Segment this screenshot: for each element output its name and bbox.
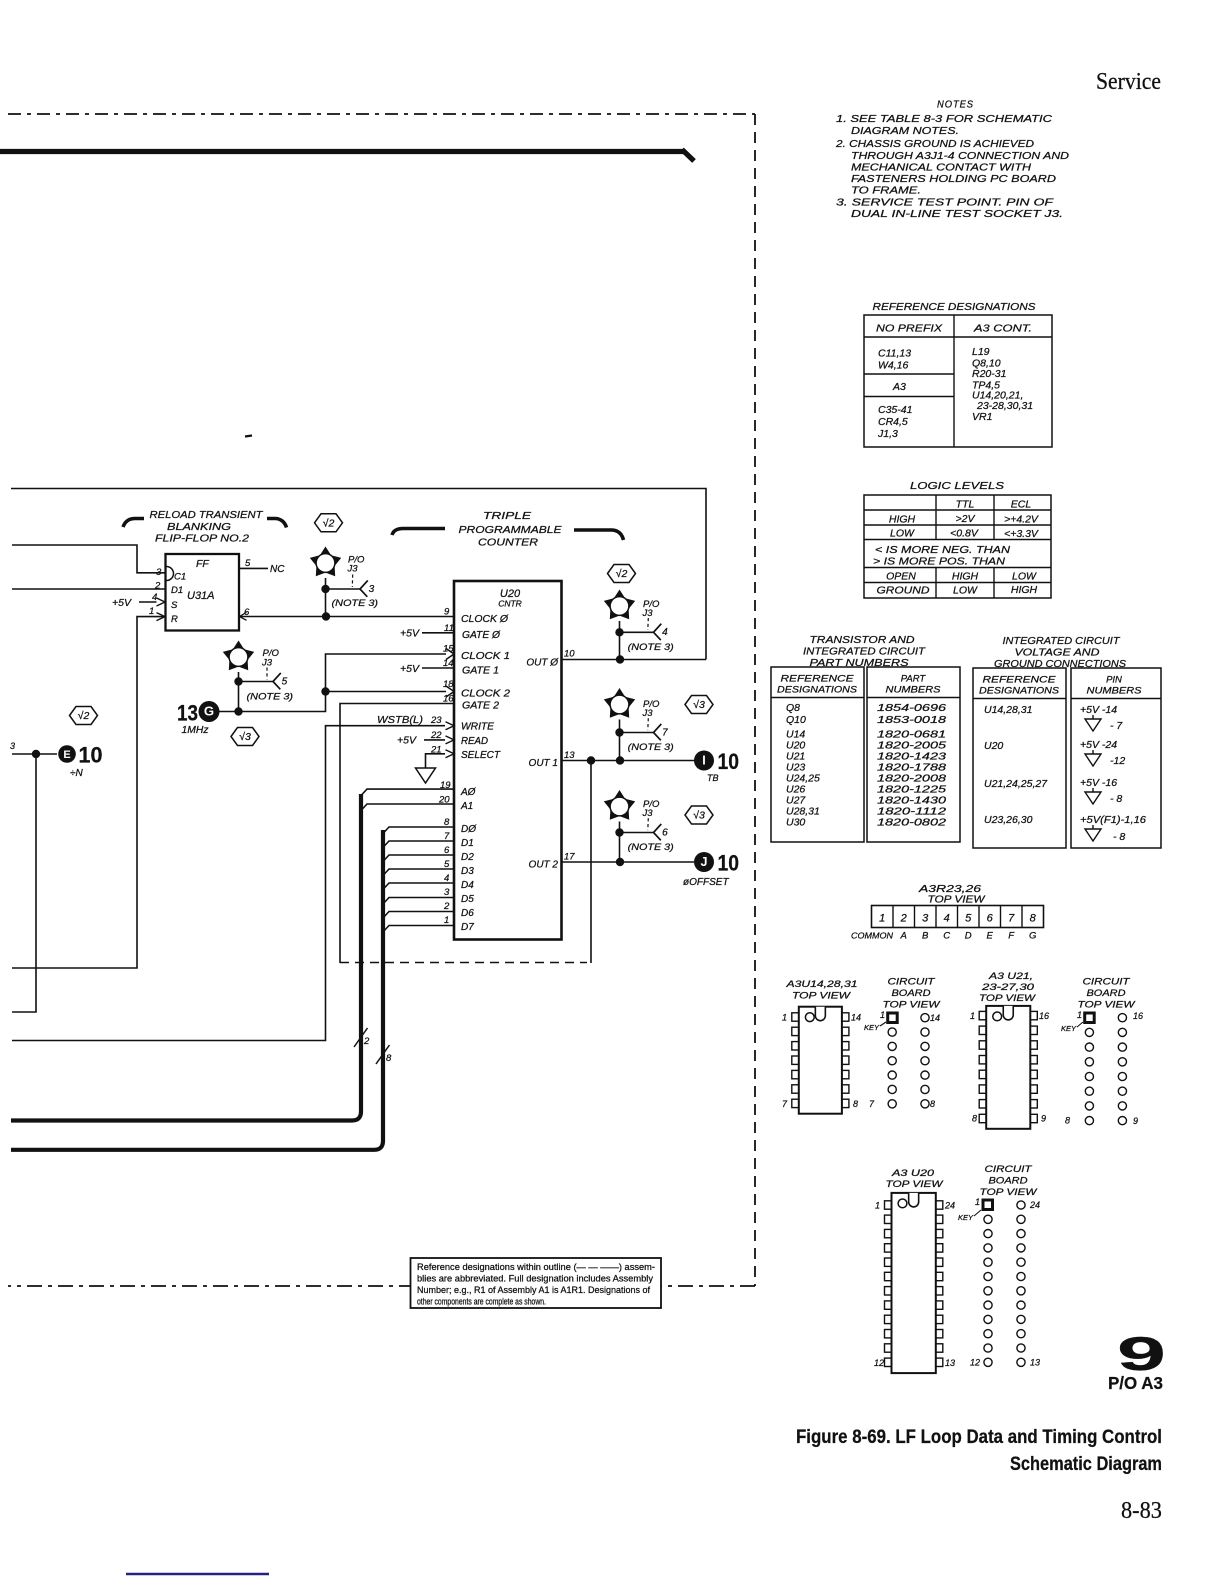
- svg-text:S: S: [171, 600, 178, 611]
- svg-text:1: 1: [879, 913, 885, 925]
- test point star P/O J3 pin 6: [604, 790, 674, 862]
- svg-text:TTL: TTL: [956, 499, 975, 511]
- svg-text:24: 24: [1029, 1200, 1040, 1210]
- svg-text:A3 CONT.: A3 CONT.: [973, 323, 1032, 335]
- svg-text:MECHANICAL CONTACT WITH: MECHANICAL CONTACT WITH: [851, 162, 1031, 174]
- svg-text:TRIPLE: TRIPLE: [483, 510, 532, 522]
- svg-text:VR1: VR1: [972, 411, 992, 423]
- svg-text:HIGH: HIGH: [1011, 584, 1038, 596]
- wire D1 pin: [383, 841, 454, 848]
- transistor and IC part numbers table: [771, 634, 960, 842]
- svg-text:10: 10: [564, 649, 575, 660]
- svg-text:TO FRAME.: TO FRAME.: [851, 185, 921, 197]
- svg-text:(NOTE 3): (NOTE 3): [332, 598, 379, 609]
- svg-text:2: 2: [900, 913, 907, 925]
- wire D4 pin: [383, 883, 454, 890]
- +5V to GATE1 pin 14: [400, 663, 454, 675]
- data bus /8: [11, 830, 392, 1150]
- signal I 10 TB: [694, 749, 739, 783]
- svg-text:D5: D5: [461, 894, 474, 905]
- svg-text:TB: TB: [707, 773, 719, 783]
- svg-text:- 8: - 8: [1113, 831, 1125, 843]
- svg-text:WRITE: WRITE: [461, 722, 494, 733]
- svg-text:10: 10: [718, 749, 740, 774]
- svg-text:U14,28,31: U14,28,31: [984, 704, 1032, 716]
- svg-text:√3: √3: [693, 699, 705, 711]
- svg-text:GATE Ø: GATE Ø: [462, 630, 501, 641]
- svg-text:12: 12: [874, 1358, 884, 1368]
- svg-text:LOW: LOW: [890, 528, 915, 540]
- svg-text:1: 1: [970, 1011, 975, 1021]
- svg-text:R: R: [171, 614, 178, 625]
- svg-text:+5V: +5V: [400, 663, 420, 675]
- svg-text:E: E: [987, 931, 994, 942]
- svg-text:U20: U20: [984, 740, 1003, 752]
- test point star P/O J3 pin 5: [223, 641, 293, 716]
- 1MHz clock wire to CLOCK1/CLOCK2: [219, 654, 454, 712]
- svg-text:√3: √3: [239, 731, 251, 743]
- label TRIPLE PROGRAMMABLE COUNTER: [392, 510, 624, 549]
- svg-text:J3: J3: [642, 808, 654, 819]
- signal E 10 divide-by-N: [58, 743, 102, 780]
- test point star P/O J3 pin 7: [604, 688, 674, 761]
- svg-text:2: 2: [363, 1036, 370, 1047]
- svg-text:15: 15: [443, 644, 454, 655]
- svg-text:J1,3: J1,3: [877, 428, 898, 440]
- svg-text:13: 13: [1030, 1358, 1040, 1368]
- wire WSTB feed at left edge: [11, 1040, 13, 1042]
- svg-text:8: 8: [930, 1099, 935, 1109]
- logic levels table: [864, 480, 1051, 598]
- svg-text:NO PREFIX: NO PREFIX: [876, 323, 943, 335]
- wire D5 pin: [383, 898, 454, 905]
- svg-text:3: 3: [922, 913, 929, 925]
- wire D2 pin: [383, 855, 454, 862]
- wire top rail to OUT0: [11, 489, 706, 660]
- svg-text:PIN: PIN: [1106, 675, 1122, 686]
- wire OUT2 pin 17 to phase offset: [561, 858, 694, 866]
- svg-text:+5V -14: +5V -14: [1080, 704, 1117, 716]
- svg-text:COUNTER: COUNTER: [478, 537, 538, 549]
- svg-text:GATE 1: GATE 1: [462, 666, 499, 677]
- svg-text:P/O A3: P/O A3: [1108, 1373, 1163, 1393]
- svg-text:A: A: [900, 931, 907, 942]
- sheet flag V3 near 1MHz: [231, 728, 259, 746]
- svg-text:Figure 8-69. LF Loop Data and: Figure 8-69. LF Loop Data and Timing Con…: [796, 1426, 1162, 1448]
- svg-text:7: 7: [869, 1099, 875, 1109]
- svg-text:BOARD: BOARD: [892, 988, 931, 999]
- svg-text:KEY: KEY: [958, 1213, 974, 1222]
- svg-text:A3U14,28,31: A3U14,28,31: [785, 979, 857, 990]
- sheet flag V3 at OUT2: [685, 806, 713, 824]
- test point star P/O J3 pin 3: [310, 547, 378, 617]
- svg-text:9: 9: [444, 607, 450, 618]
- svg-text:RELOAD TRANSIENT: RELOAD TRANSIENT: [150, 509, 265, 521]
- wire GATE2 pin 16: [340, 704, 454, 964]
- svg-text:3: 3: [156, 567, 162, 578]
- svg-text:PROGRAMMABLE: PROGRAMMABLE: [459, 524, 563, 536]
- svg-text:NOTES: NOTES: [937, 100, 974, 111]
- wire to U31A pin 2 (DI): [12, 588, 165, 590]
- svg-text:A1: A1: [460, 801, 473, 812]
- svg-text:DUAL IN-LINE TEST SOCKET J3.: DUAL IN-LINE TEST SOCKET J3.: [851, 208, 1063, 220]
- svg-text:I: I: [702, 754, 705, 768]
- svg-text:+5V: +5V: [112, 597, 132, 609]
- svg-text:5: 5: [965, 913, 972, 925]
- svg-text:A3: A3: [892, 381, 906, 393]
- figure caption: [796, 1426, 1162, 1475]
- svg-text:4: 4: [944, 913, 950, 925]
- svg-text:DESIGNATIONS: DESIGNATIONS: [979, 686, 1060, 697]
- svg-text:7: 7: [782, 1099, 788, 1109]
- svg-text:LOW: LOW: [1012, 571, 1037, 583]
- svg-text:7: 7: [662, 727, 668, 738]
- svg-text:<+3.3V: <+3.3V: [1004, 528, 1039, 540]
- svg-text:J: J: [701, 855, 708, 869]
- svg-text:16: 16: [1133, 1011, 1143, 1021]
- svg-text:D4: D4: [461, 880, 474, 891]
- circuit board top view for U14 group: [864, 977, 941, 1110]
- +5V label at U31A pin 4: [112, 597, 165, 609]
- svg-text:3: 3: [444, 887, 450, 898]
- wire OUT0 pin 10: [561, 655, 706, 663]
- svg-text:1: 1: [149, 606, 154, 617]
- svg-text:7: 7: [1008, 913, 1015, 925]
- pen mark: [245, 436, 252, 437]
- svg-text:OUT 2: OUT 2: [529, 860, 559, 871]
- svg-text:F: F: [1008, 931, 1015, 942]
- IC package A3U20 top view: [874, 1168, 955, 1373]
- svg-text:CLOCK Ø: CLOCK Ø: [461, 614, 509, 625]
- svg-text:A3 U21,: A3 U21,: [988, 971, 1033, 982]
- signal J 10 phase offset: [683, 851, 739, 889]
- svg-text:1: 1: [444, 915, 449, 926]
- svg-text:>+4.2V: >+4.2V: [1004, 514, 1039, 526]
- svg-text:CLOCK 1: CLOCK 1: [461, 651, 510, 662]
- svg-text:2. CHASSIS GROUND IS ACHIEVED: 2. CHASSIS GROUND IS ACHIEVED: [835, 138, 1035, 150]
- svg-text:8-83: 8-83: [1121, 1498, 1162, 1524]
- svg-text:1: 1: [1077, 1010, 1082, 1020]
- svg-text:D2: D2: [461, 852, 474, 863]
- svg-text:NUMBERS: NUMBERS: [886, 685, 942, 696]
- wire U31A pin 5 to NC: [239, 564, 285, 575]
- svg-text:4: 4: [152, 592, 157, 603]
- svg-text:GATE 2: GATE 2: [462, 701, 499, 712]
- svg-text:KEY: KEY: [1061, 1024, 1077, 1033]
- svg-text:16: 16: [1039, 1011, 1049, 1021]
- reference designation note box: [411, 1258, 662, 1308]
- dashed assembly outline border: [8, 114, 755, 1286]
- sheet flag V2 above OUT0: [608, 565, 636, 583]
- IC voltage and ground connections table: [973, 635, 1161, 848]
- svg-text:12: 12: [970, 1358, 980, 1368]
- svg-text:3. SERVICE TEST POINT. PIN OF: 3. SERVICE TEST POINT. PIN OF: [836, 197, 1054, 209]
- svg-text:INTEGRATED CIRCUIT: INTEGRATED CIRCUIT: [1003, 635, 1122, 647]
- svg-text:1: 1: [875, 1201, 880, 1211]
- svg-text:1820-0802: 1820-0802: [877, 817, 946, 829]
- svg-text:+5V -16: +5V -16: [1080, 777, 1117, 789]
- svg-text:U30: U30: [786, 817, 805, 829]
- svg-text:Number; e.g., R1 of Assembly A: Number; e.g., R1 of Assembly A1 is A1R1.…: [417, 1285, 651, 1295]
- svg-text:A3 U20: A3 U20: [891, 1168, 935, 1179]
- svg-text:D3: D3: [461, 866, 474, 877]
- svg-text:DIAGRAM NOTES.: DIAGRAM NOTES.: [851, 125, 959, 137]
- svg-text:Reference designations within: Reference designations within outline (—…: [417, 1262, 655, 1272]
- svg-text:- 7: - 7: [1110, 720, 1123, 732]
- svg-text:18: 18: [443, 679, 454, 690]
- sheet flag V2 near flip-flop: [315, 514, 343, 532]
- svg-text:TOP VIEW: TOP VIEW: [883, 1000, 941, 1011]
- +5V to GATE0 pin 11: [400, 628, 454, 640]
- svg-text:D7: D7: [461, 922, 474, 933]
- svg-text:TOP VIEW: TOP VIEW: [1078, 1000, 1136, 1011]
- svg-text:D1: D1: [461, 838, 474, 849]
- svg-text:TOP VIEW: TOP VIEW: [792, 991, 851, 1002]
- svg-text:8: 8: [972, 1114, 977, 1124]
- svg-text:BLANKING: BLANKING: [167, 521, 231, 533]
- svg-text:FLIP-FLOP NO.2: FLIP-FLOP NO.2: [155, 533, 249, 545]
- svg-text:>2V: >2V: [956, 513, 976, 525]
- svg-text:BOARD: BOARD: [1087, 988, 1126, 999]
- svg-text:TRANSISTOR AND: TRANSISTOR AND: [810, 634, 915, 646]
- svg-text:OUT Ø: OUT Ø: [526, 658, 559, 669]
- svg-text:CLOCK 2: CLOCK 2: [461, 689, 510, 700]
- wire D7 pin: [383, 926, 454, 933]
- wire D3 pin: [383, 869, 454, 876]
- svg-text:23-27,30: 23-27,30: [981, 982, 1035, 993]
- reference designations table: [864, 301, 1052, 447]
- svg-text:Q8: Q8: [786, 702, 800, 714]
- svg-text:L19: L19: [972, 346, 990, 358]
- svg-text:U23,26,30: U23,26,30: [984, 814, 1033, 826]
- +5V to READ pin 22: [397, 735, 454, 747]
- svg-text:D1: D1: [171, 585, 183, 596]
- svg-text:PART: PART: [901, 674, 927, 685]
- note 1: [836, 113, 1053, 137]
- IC package A3U14,28,31 top view: [782, 979, 861, 1114]
- svg-text:10: 10: [79, 743, 103, 768]
- svg-text:BOARD: BOARD: [989, 1176, 1028, 1187]
- svg-text:G: G: [204, 704, 214, 719]
- note 2: [835, 138, 1070, 197]
- svg-text:HIGH: HIGH: [889, 514, 916, 526]
- svg-text:KEY: KEY: [864, 1023, 880, 1032]
- svg-text:< IS MORE NEG. THAN: < IS MORE NEG. THAN: [875, 544, 1010, 556]
- svg-text:HIGH: HIGH: [952, 571, 979, 583]
- svg-text:READ: READ: [461, 736, 488, 747]
- svg-text:8: 8: [853, 1099, 858, 1109]
- wire D0 pin: [383, 827, 454, 834]
- svg-text:THROUGH A3J1-4 CONNECTION AND: THROUGH A3J1-4 CONNECTION AND: [851, 150, 1069, 162]
- svg-text:1854-0696: 1854-0696: [877, 702, 946, 714]
- svg-text:C11,13: C11,13: [878, 348, 911, 360]
- svg-text:CIRCUIT: CIRCUIT: [985, 1164, 1033, 1175]
- svg-text:W4,16: W4,16: [878, 360, 909, 372]
- label RELOAD TRANSIENT BLANKING FLIP-FLOP NO.2: [123, 509, 287, 545]
- svg-text:<0.8V: <0.8V: [950, 528, 979, 540]
- wire WSTB(L) to WRITE pin 23: [12, 714, 454, 1041]
- svg-text:- 8: - 8: [1110, 793, 1122, 805]
- svg-text:> IS MORE POS. THAN: > IS MORE POS. THAN: [873, 556, 1005, 568]
- svg-text:3: 3: [369, 584, 375, 595]
- svg-text:CIRCUIT: CIRCUIT: [1083, 977, 1131, 988]
- svg-text:1: 1: [975, 1197, 980, 1207]
- svg-text:√2: √2: [616, 568, 628, 580]
- svg-text:6: 6: [987, 913, 994, 925]
- svg-text:U21,24,25,27: U21,24,25,27: [984, 778, 1048, 790]
- svg-text:other components are complete: other components are complete as shown.: [417, 1297, 546, 1307]
- svg-text:6: 6: [662, 827, 668, 838]
- svg-text:1: 1: [880, 1010, 885, 1020]
- bottom blue rule: [126, 1573, 269, 1575]
- svg-text:INTEGRATED CIRCUIT: INTEGRATED CIRCUIT: [803, 646, 927, 658]
- svg-text:E: E: [63, 749, 70, 761]
- zone number 9 P/O A3: [1108, 1327, 1166, 1393]
- wire A0 pin 19: [361, 789, 454, 795]
- svg-text:FF: FF: [196, 558, 209, 570]
- svg-text:U31A: U31A: [187, 590, 215, 602]
- svg-text:(NOTE 3): (NOTE 3): [628, 842, 674, 853]
- svg-text:(NOTE 3): (NOTE 3): [628, 642, 674, 653]
- svg-text:TOP VIEW: TOP VIEW: [979, 993, 1036, 1004]
- svg-text:OUT 1: OUT 1: [529, 758, 558, 769]
- svg-text:13: 13: [177, 701, 198, 726]
- wire from U31A pin 1 (R) down-left: [12, 613, 165, 968]
- svg-text:Service: Service: [1096, 69, 1161, 95]
- svg-text:LOW: LOW: [953, 585, 978, 597]
- sheet flag V3 at OUT1: [685, 696, 713, 714]
- svg-text:1: 1: [782, 1013, 787, 1023]
- svg-text:-12: -12: [1110, 755, 1125, 767]
- circuit board top view for U21 group: [1061, 977, 1143, 1126]
- svg-text:÷N: ÷N: [70, 768, 83, 779]
- svg-text:TOP VIEW: TOP VIEW: [886, 1179, 944, 1190]
- svg-text:NUMBERS: NUMBERS: [1087, 686, 1143, 697]
- svg-text:G: G: [1029, 931, 1036, 942]
- wire U31A pin 6 to U20 CLOCK 0: [239, 612, 454, 620]
- svg-text:GROUND: GROUND: [877, 585, 930, 597]
- svg-text:C: C: [943, 931, 950, 942]
- svg-text:(NOTE 3): (NOTE 3): [247, 692, 294, 703]
- svg-text:CIRCUIT: CIRCUIT: [888, 977, 936, 988]
- svg-text:C35-41: C35-41: [878, 404, 912, 416]
- flip-flop U31A: [166, 554, 240, 631]
- svg-text:øOFFSET: øOFFSET: [683, 877, 729, 888]
- wire D6 pin: [383, 912, 454, 919]
- wire OUT1 drop to outline: [590, 761, 592, 964]
- svg-text:C1: C1: [174, 572, 186, 583]
- svg-text:(NOTE 3): (NOTE 3): [628, 742, 674, 753]
- svg-text:R20-31: R20-31: [972, 368, 1006, 380]
- svg-text:1853-0018: 1853-0018: [877, 714, 946, 726]
- circuit board top view for U20: [958, 1164, 1040, 1368]
- SELECT pin 21 to ground: [426, 750, 455, 768]
- svg-text:ECL: ECL: [1011, 499, 1032, 511]
- svg-text:J3: J3: [642, 608, 654, 619]
- svg-text:TOP VIEW: TOP VIEW: [980, 1187, 1038, 1198]
- note 3: [836, 197, 1063, 221]
- svg-text:1MHz: 1MHz: [182, 725, 209, 736]
- IC package A3U21,23-27,30 top view: [970, 971, 1049, 1129]
- test point star P/O J3 pin 4: [604, 590, 674, 661]
- svg-text:NC: NC: [270, 564, 285, 575]
- svg-text:13: 13: [945, 1358, 955, 1368]
- address bus /2: [11, 794, 370, 1121]
- svg-text:9: 9: [1133, 1116, 1138, 1126]
- svg-text:9: 9: [1041, 1114, 1046, 1124]
- svg-text:√2: √2: [78, 710, 90, 722]
- svg-text:J3: J3: [642, 708, 654, 719]
- svg-text:10: 10: [718, 851, 740, 876]
- svg-text:Q10: Q10: [786, 714, 806, 726]
- svg-text:OPEN: OPEN: [886, 571, 916, 583]
- wire to E10: [12, 750, 57, 1012]
- thick top bus wire: [0, 150, 694, 162]
- svg-text:TOP VIEW: TOP VIEW: [928, 894, 986, 906]
- svg-text:LOGIC LEVELS: LOGIC LEVELS: [910, 480, 1004, 492]
- wire OUT1 pin 13 to TB: [561, 756, 694, 764]
- svg-text:REFERENCE DESIGNATIONS: REFERENCE DESIGNATIONS: [873, 301, 1036, 313]
- junction dot CLOCK0: [322, 612, 330, 620]
- dashed outline segment below U20: [340, 962, 587, 964]
- svg-text:FASTENERS HOLDING PC BOARD: FASTENERS HOLDING PC BOARD: [851, 173, 1056, 185]
- svg-text:VOLTAGE AND: VOLTAGE AND: [1015, 647, 1100, 659]
- svg-text:+5V: +5V: [397, 735, 417, 747]
- svg-text:Schematic Diagram: Schematic Diagram: [1010, 1453, 1162, 1475]
- svg-text:2: 2: [154, 581, 161, 592]
- wire to U31A pin 3 (CI): [12, 545, 165, 573]
- triple programmable counter U20: [446, 581, 562, 940]
- svg-text:+5V: +5V: [400, 628, 420, 640]
- svg-text:J3: J3: [261, 658, 273, 669]
- svg-text:24: 24: [944, 1201, 955, 1211]
- svg-text:5: 5: [245, 558, 251, 569]
- svg-text:14: 14: [930, 1013, 940, 1023]
- svg-text:2: 2: [443, 901, 450, 912]
- wire A1 pin 20: [361, 804, 454, 811]
- svg-text:CNTR: CNTR: [498, 599, 522, 609]
- svg-text:+5V(F1)-1,16: +5V(F1)-1,16: [1080, 814, 1146, 826]
- svg-text:√3: √3: [693, 810, 705, 822]
- svg-text:DØ: DØ: [461, 824, 477, 835]
- svg-text:√2: √2: [323, 517, 335, 529]
- svg-text:1. SEE TABLE 8-3 FOR SCHEMATIC: 1. SEE TABLE 8-3 FOR SCHEMATIC: [836, 113, 1053, 125]
- svg-text:3: 3: [10, 741, 15, 751]
- svg-text:REFERENCE: REFERENCE: [781, 674, 855, 685]
- svg-text:5: 5: [282, 676, 288, 687]
- svg-text:D: D: [965, 931, 972, 942]
- clock source 13-G 1MHz: [177, 701, 220, 737]
- svg-text:WSTB(L): WSTB(L): [377, 714, 423, 726]
- svg-text:14: 14: [851, 1013, 861, 1023]
- ground symbol: [416, 768, 436, 783]
- svg-text:13: 13: [564, 750, 575, 761]
- svg-text:8: 8: [1030, 913, 1037, 925]
- svg-text:REFERENCE: REFERENCE: [983, 675, 1057, 686]
- svg-text:23: 23: [430, 715, 442, 726]
- svg-text:8: 8: [386, 1053, 392, 1064]
- svg-text:COMMON: COMMON: [851, 931, 894, 941]
- svg-text:8: 8: [1065, 1116, 1070, 1126]
- sheet flag V2 near E10: [70, 707, 98, 725]
- resistor pack A3R23,26 top view: [851, 883, 1044, 942]
- svg-text:4: 4: [662, 627, 668, 638]
- svg-text:17: 17: [564, 852, 575, 863]
- svg-text:D6: D6: [461, 908, 474, 919]
- svg-text:SELECT: SELECT: [461, 750, 501, 761]
- svg-text:+5V -24: +5V -24: [1080, 739, 1117, 751]
- svg-text:B: B: [922, 931, 929, 942]
